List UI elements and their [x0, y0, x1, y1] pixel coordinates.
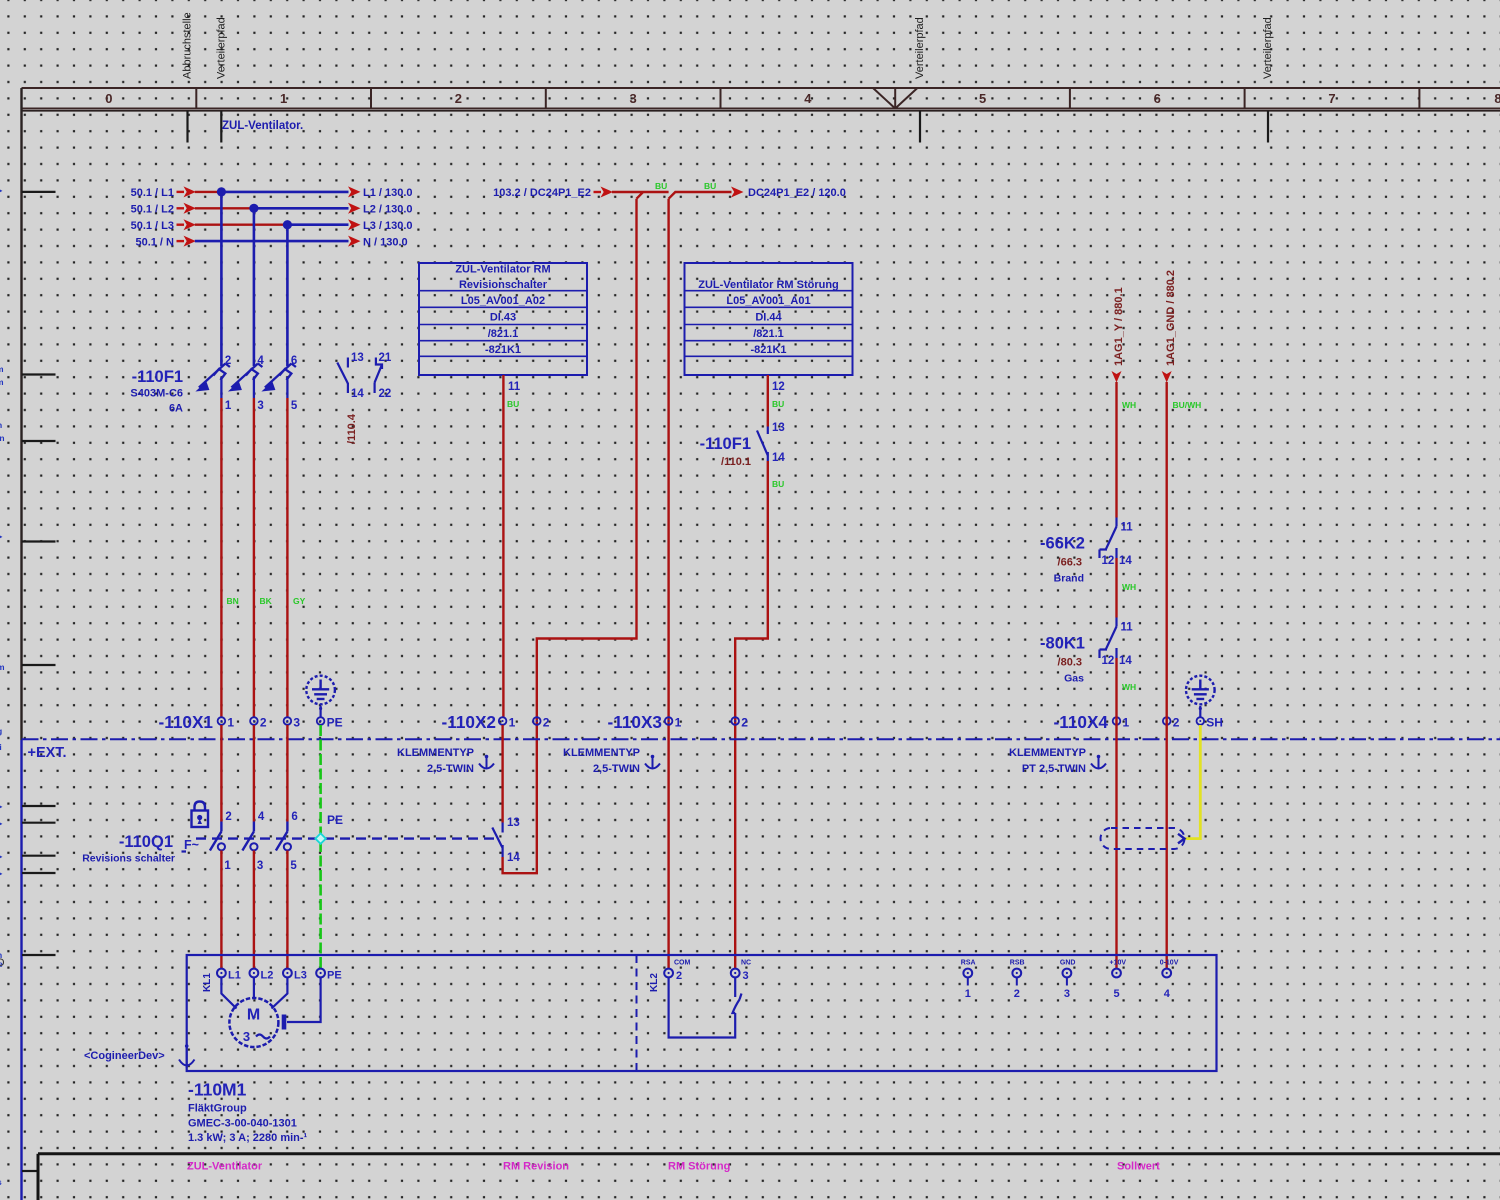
svg-text:KL2: KL2 [649, 973, 660, 992]
svg-text:50.1 / L2: 50.1 / L2 [131, 204, 174, 216]
svg-text:s: s [0, 1177, 2, 1187]
motor feed wire L3 [272, 977, 288, 1008]
svg-text:14: 14 [507, 852, 520, 864]
path divider stub below ruler at Verteilerpfad 2 [919, 111, 921, 143]
svg-text:RM Revision: RM Revision [503, 1161, 569, 1173]
box terminal KL1 PE [316, 969, 325, 978]
mechanical link dashed line of Q1 [196, 837, 495, 839]
svg-text:S403M-C6: S403M-C6 [130, 388, 183, 400]
interruption arrow 50.1/L3 [177, 223, 185, 225]
svg-text:/110.1: /110.1 [721, 456, 751, 468]
svg-text:6A: 6A [169, 403, 183, 415]
left frame bottom tick [22, 1170, 38, 1172]
wire L2 red segment [195, 207, 254, 209]
wire from U1 pin 11 down to X2:1 [502, 375, 504, 717]
svg-text:11: 11 [508, 381, 521, 393]
ground symbol at X1 PE [306, 676, 335, 705]
DC24 outgoing arrow [731, 187, 744, 198]
svg-text:-110F1: -110F1 [700, 435, 751, 453]
svg-text:L05_AV001_A02: L05_AV001_A02 [461, 295, 545, 307]
phase drop wire L2 [253, 208, 256, 366]
svg-text:RM Störung: RM Störung [668, 1161, 730, 1173]
svg-text:1AG1_GND / 880.2: 1AG1_GND / 880.2 [1165, 270, 1177, 366]
svg-text:4: 4 [258, 811, 265, 823]
phase drop wire L3 [286, 225, 289, 366]
wire 1AG1_Y upper [1115, 382, 1117, 518]
svg-text:5: 5 [290, 860, 297, 872]
svg-text:DC24P1_E2 / 120.0: DC24P1_E2 / 120.0 [748, 187, 846, 199]
svg-text:4: 4 [257, 355, 264, 367]
svg-text:ZUL-Ventilator RM: ZUL-Ventilator RM [455, 264, 550, 276]
svg-text:COM: COM [674, 960, 691, 967]
DC24 vertical wire 1 (to X2 branch) [503, 199, 637, 874]
svg-text:m: m [0, 662, 5, 672]
structure boundary dash-dot line +EXT [22, 738, 1500, 740]
terminal type note X3 [563, 747, 660, 775]
svg-text:Sollwert: Sollwert [1117, 1161, 1160, 1173]
svg-text:1: 1 [675, 716, 682, 730]
svg-text:KL1: KL1 [202, 973, 213, 992]
svg-text:Verteilerpfad: Verteilerpfad [1262, 17, 1274, 79]
svg-text:FläktGroup: FläktGroup [188, 1103, 247, 1115]
svg-text:WH: WH [1122, 582, 1136, 592]
svg-text:BU: BU [704, 181, 716, 191]
svg-text:-110X2: -110X2 [442, 712, 496, 732]
interruption anchor at box corner [179, 1047, 195, 1069]
svg-text:DI.43: DI.43 [490, 312, 516, 324]
svg-text:PE: PE [327, 970, 342, 982]
path divider stub below ruler at Verteilerpfad 3 [1267, 111, 1269, 143]
terminal type note X2 [397, 747, 494, 775]
svg-text:+EXT.: +EXT. [28, 745, 67, 761]
svg-text:13: 13 [772, 422, 785, 434]
svg-text:4: 4 [1164, 988, 1171, 1000]
svg-text:3: 3 [243, 1029, 250, 1044]
internal NC contact COM-NC [669, 977, 742, 1037]
svg-text:RSA: RSA [961, 960, 976, 967]
box terminal KL2 NC [731, 969, 740, 978]
svg-text:ii: ii [0, 742, 2, 752]
svg-text:Abbruchstelle: Abbruchstelle [182, 12, 194, 79]
svg-text:Verteilerpfad: Verteilerpfad [215, 17, 227, 79]
box terminal RSB [1012, 969, 1021, 978]
motor M1 circle [229, 998, 278, 1047]
wire 1AG1_GND full [1165, 382, 1167, 969]
junction node L1 [217, 187, 226, 196]
ruler section dividers [22, 88, 1420, 109]
svg-text:2: 2 [225, 811, 231, 823]
svg-text:-66K2: -66K2 [1040, 535, 1085, 553]
left margin clipped fragments [0, 186, 5, 1187]
svg-text:14: 14 [1119, 555, 1132, 567]
svg-text:50.1 / L3: 50.1 / L3 [131, 220, 174, 232]
junction node L2 [249, 204, 258, 213]
interruption arrow 50.1/N [177, 240, 185, 242]
PLC box U1: ZUL-Ventilator RM Revisionschalter (DI.43) [419, 263, 587, 375]
svg-text:6: 6 [1154, 91, 1161, 106]
incoming arrow 1AG1_Y [1112, 371, 1122, 383]
svg-text:7: 7 [1328, 91, 1335, 106]
svg-text:/110.4: /110.4 [346, 413, 358, 444]
path divider stub below ruler at Verteilerpfad 1 [220, 111, 222, 143]
svg-text:13: 13 [351, 352, 364, 364]
svg-text:Verteilerpfad: Verteilerpfad [914, 17, 926, 79]
svg-text:-110X1: -110X1 [159, 712, 214, 732]
terminal type note X4 [1009, 747, 1106, 775]
svg-text:NC: NC [741, 960, 751, 967]
svg-text:BU: BU [507, 399, 519, 409]
svg-text:RSB: RSB [1010, 960, 1025, 967]
svg-text:F~: F~ [184, 838, 199, 852]
switch -110Q1 (3-pole revision switch) [210, 725, 298, 969]
svg-text:GY: GY [293, 596, 306, 606]
motor feed wire L1 [221, 977, 236, 1008]
ruler numbers [105, 91, 1500, 106]
svg-text:L3 / 130.0: L3 / 130.0 [363, 220, 413, 232]
svg-text:Brand: Brand [1054, 573, 1084, 585]
svg-text:BU: BU [772, 399, 784, 409]
phase drop wire L1 [220, 192, 223, 366]
svg-text:14: 14 [351, 388, 364, 400]
svg-text:/821.1: /821.1 [488, 328, 519, 340]
wire L3 breaker to X1:3 [286, 398, 288, 717]
svg-text:L3: L3 [294, 970, 307, 982]
box terminal KL1 L1 [217, 969, 226, 978]
svg-text:/80.3: /80.3 [1058, 657, 1082, 669]
svg-text:12: 12 [772, 381, 785, 393]
outgoing arrow L1/130.0 [348, 186, 361, 197]
svg-text:-110F1: -110F1 [132, 368, 183, 386]
DC24 bus wire with jogs [612, 192, 732, 199]
ground symbol at X4 SH [1186, 676, 1215, 705]
path divider stub below ruler at Abbruchstelle [186, 111, 188, 143]
svg-text:1AG1_Y / 880.1: 1AG1_Y / 880.1 [1113, 287, 1125, 366]
svg-text:5: 5 [1114, 988, 1120, 1000]
svg-text:Revisions schalter: Revisions schalter [82, 853, 175, 865]
svg-text:1: 1 [224, 860, 231, 872]
svg-text:8: 8 [1494, 91, 1500, 106]
svg-text:KLEMMENTYP: KLEMMENTYP [397, 747, 474, 759]
svg-text:-110Q1: -110Q1 [119, 833, 173, 851]
svg-text:0-10V: 0-10V [1160, 960, 1179, 967]
motor feed wire L2 [253, 977, 255, 998]
svg-text:3: 3 [629, 91, 636, 106]
svg-text:in: in [0, 433, 5, 443]
svg-text:L1 / 130.0: L1 / 130.0 [363, 187, 413, 199]
DC24 vertical wire 2 (to X3:1 / motor COM) [667, 199, 669, 969]
terminal strip -110X2 [442, 712, 550, 732]
svg-text:/821.1: /821.1 [753, 328, 784, 340]
svg-text:3: 3 [743, 970, 749, 982]
svg-text:3: 3 [293, 716, 300, 730]
svg-text:-110M1: -110M1 [188, 1080, 247, 1100]
wire L2 breaker to X1:2 [253, 398, 255, 717]
outgoing arrow L3/130.0 [348, 219, 361, 230]
svg-text:-110X3: -110X3 [608, 712, 662, 732]
svg-text:KLEMMENTYP: KLEMMENTYP [1009, 747, 1086, 759]
svg-text:14: 14 [772, 452, 785, 464]
box terminal 0-10V [1162, 969, 1171, 978]
motor PE wire [287, 977, 321, 1022]
wire L1 red segment [195, 191, 222, 193]
svg-text:2: 2 [676, 970, 682, 982]
svg-text:O: O [0, 957, 5, 969]
svg-text:L1: L1 [228, 970, 241, 982]
svg-text:BU: BU [772, 479, 784, 489]
svg-text:Gas: Gas [1064, 673, 1084, 685]
svg-text:2: 2 [543, 716, 550, 730]
svg-text:-821K1: -821K1 [485, 344, 521, 356]
svg-text:SH: SH [1206, 716, 1223, 730]
svg-text:0: 0 [105, 91, 112, 106]
svg-text:3: 3 [1064, 988, 1070, 1000]
terminal strip -110X4 [1054, 712, 1223, 732]
circuit breaker -110F1 (3-pole) [195, 355, 298, 412]
svg-text:BN: BN [227, 596, 239, 606]
svg-text:1: 1 [227, 716, 234, 730]
svg-text:‣: ‣ [0, 532, 3, 542]
footer band left edge [37, 1154, 40, 1200]
outgoing arrow N/130.0 [348, 236, 361, 247]
ruler band bottom line [22, 108, 1500, 110]
wire L1 blue segment [221, 191, 348, 194]
svg-text:14: 14 [1119, 655, 1132, 667]
svg-text:GMEC-3-00-040-1301: GMEC-3-00-040-1301 [188, 1118, 297, 1130]
svg-text:2,5-TWIN: 2,5-TWIN [593, 763, 640, 775]
svg-text:PT 2,5-TWIN: PT 2,5-TWIN [1022, 763, 1086, 775]
svg-text:11: 11 [1121, 522, 1134, 534]
PE wire green dashed from X1 PE to motor box [319, 725, 322, 969]
svg-text:-110X4: -110X4 [1054, 712, 1109, 732]
svg-text:2: 2 [225, 355, 231, 367]
svg-text:6: 6 [291, 355, 297, 367]
motor device box -110M1 [187, 955, 1217, 1071]
svg-text:1: 1 [509, 716, 516, 730]
svg-text:5: 5 [291, 400, 298, 412]
svg-text:N / 130.0: N / 130.0 [363, 236, 408, 248]
svg-text:12: 12 [1102, 655, 1115, 667]
svg-text:BK: BK [260, 596, 273, 606]
wire L2 blue segment [254, 207, 349, 210]
svg-text:ZUL-Ventilator RM Störung: ZUL-Ventilator RM Störung [698, 279, 839, 291]
motor PE bar [282, 1015, 287, 1030]
terminal strip -110X1 [159, 712, 343, 732]
left frame vertical lower (blue) [20, 740, 22, 1200]
svg-text:1.3 kW; 3 A; 2280 min-¹: 1.3 kW; 3 A; 2280 min-¹ [188, 1132, 308, 1144]
relay contact -80K1 (Gas) [1040, 618, 1133, 685]
svg-text:-821K1: -821K1 [750, 344, 786, 356]
ruler band top line [22, 87, 1500, 89]
wire L1 breaker to X1:1 [220, 398, 222, 717]
svg-text:2: 2 [741, 716, 748, 730]
svg-text:22: 22 [379, 388, 392, 400]
svg-text:‣: ‣ [0, 802, 3, 812]
cyan node at PE crossing [315, 833, 325, 843]
svg-text:n: n [0, 420, 2, 430]
svg-text:3: 3 [257, 860, 263, 872]
shield arrow [1178, 834, 1185, 844]
svg-text:2: 2 [260, 716, 267, 730]
interruption arrow 50.1/L2 [177, 207, 185, 209]
left frame vertical upper (black) [20, 88, 22, 740]
svg-text:L2 / 130.0: L2 / 130.0 [363, 204, 413, 216]
svg-text:1: 1 [280, 91, 287, 106]
svg-text:Revisionschalter: Revisionschalter [459, 279, 548, 291]
terminal strip -110X3 [608, 712, 749, 732]
svg-text:11: 11 [1121, 622, 1134, 634]
svg-text:<CogineerDev>: <CogineerDev> [84, 1050, 165, 1062]
wire L3 red segment [195, 223, 288, 225]
breaker aux contact 21/22 [375, 358, 382, 394]
svg-text:21: 21 [379, 352, 392, 364]
shield wire yellow from SH [1185, 725, 1201, 839]
DC24 incoming arrow [594, 191, 602, 193]
incoming arrow 1AG1_GND [1162, 371, 1172, 383]
svg-text:WH: WH [1122, 400, 1136, 410]
svg-text:50.1 / N: 50.1 / N [135, 236, 174, 248]
svg-text:1: 1 [1123, 716, 1130, 730]
wire L3 blue segment [287, 223, 348, 226]
svg-text:PE: PE [327, 716, 343, 730]
svg-text:M: M [247, 1007, 260, 1024]
svg-text:ZUL-Ventilator: ZUL-Ventilator [187, 1161, 263, 1173]
PLC box U2: ZUL-Ventilator RM St&#246;rung (DI.44) [685, 263, 853, 375]
relay contact -66K2 (Brand) [1040, 518, 1133, 585]
svg-text:1: 1 [225, 400, 232, 412]
svg-text:+10V: +10V [1110, 960, 1127, 967]
box terminal KL2 COM [664, 969, 673, 978]
svg-text:2,5-TWIN: 2,5-TWIN [427, 763, 474, 775]
cable shield dashed oval [1101, 828, 1185, 849]
wire from contact to jog to X3:2 [735, 461, 768, 969]
svg-text:12: 12 [1102, 555, 1115, 567]
svg-text:-80K1: -80K1 [1040, 635, 1085, 653]
padlock symbol [192, 802, 209, 828]
wire N blue [195, 240, 349, 243]
svg-text:13: 13 [507, 817, 520, 829]
box terminal KL1 L2 [250, 969, 259, 978]
box internal dashed divider [636, 955, 638, 1071]
svg-text:2: 2 [455, 91, 462, 106]
svg-text:/66.3: /66.3 [1058, 557, 1082, 569]
box terminal +10V [1112, 969, 1121, 978]
svg-text:KLEMMENTYP: KLEMMENTYP [563, 747, 640, 759]
svg-text:1: 1 [965, 988, 971, 1000]
svg-text:6: 6 [291, 811, 297, 823]
box terminal GND [1063, 969, 1072, 978]
svg-text:103.2 / DC24P1_E2: 103.2 / DC24P1_E2 [493, 187, 591, 199]
svg-text:L2: L2 [261, 970, 274, 982]
wire X2:1 to aux contact (red) [501, 725, 503, 823]
svg-text:L05_AV001_A01: L05_AV001_A01 [726, 295, 810, 307]
svg-text:PE: PE [327, 813, 343, 827]
svg-text:‣: ‣ [0, 852, 3, 862]
svg-text:2: 2 [1014, 988, 1020, 1000]
svg-text:GND: GND [1060, 960, 1076, 967]
wire between 66K2 and 80K1 [1115, 558, 1117, 618]
breaker aux contact 13/14 [337, 358, 348, 394]
outgoing arrow L2/130.0 [348, 203, 361, 214]
ruler V notch marker at section 4/5 [873, 88, 917, 109]
svg-text:‣: ‣ [0, 869, 3, 879]
wire from U2 pin 12 down to contact [767, 375, 769, 427]
left frame row ticks [22, 192, 56, 955]
footer band top line [38, 1152, 1500, 1155]
svg-text:‣: ‣ [0, 819, 3, 829]
svg-text:BU: BU [655, 181, 667, 191]
aux contact -110F1 13/14 (on U2 wire) [757, 427, 768, 462]
svg-text:DI.44: DI.44 [755, 312, 782, 324]
junction node L3 [283, 220, 292, 229]
svg-text:m: m [0, 364, 4, 374]
svg-text:5: 5 [979, 91, 986, 106]
svg-text:‣: ‣ [0, 186, 3, 196]
svg-text:WH: WH [1122, 682, 1136, 692]
interruption arrow 50.1/L1 [177, 191, 185, 193]
svg-text:3: 3 [257, 400, 263, 412]
ruler line below band [22, 110, 1500, 112]
svg-text:2: 2 [1173, 716, 1180, 730]
Q1 aux contact at X2 (13/14) [492, 823, 502, 858]
svg-text:g: g [0, 726, 2, 736]
analog pin stubs [967, 977, 969, 985]
svg-text:BU/WH: BU/WH [1173, 400, 1202, 410]
box terminal KL1 L3 [283, 969, 292, 978]
svg-text:4: 4 [804, 91, 812, 106]
svg-text:ZUL-Ventilator.: ZUL-Ventilator. [222, 120, 303, 132]
svg-text:50.1 / L1: 50.1 / L1 [131, 187, 174, 199]
box terminal RSA [963, 969, 972, 978]
svg-text:m: m [0, 377, 4, 387]
wire 80K1 to X4:1 [1115, 658, 1117, 969]
